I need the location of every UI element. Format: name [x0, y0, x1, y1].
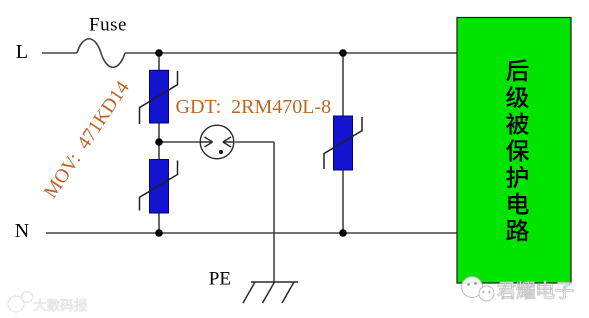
GDT gas indicator dot	[219, 150, 223, 154]
MOV RV1 top-left varistor body	[150, 70, 169, 123]
protected-circuit label char 被	[506, 113, 529, 135]
MOV RV3 right varistor body	[334, 116, 353, 170]
MOV RV1 varistor strike symbol	[140, 71, 178, 124]
ground PE earth symbol	[243, 282, 298, 303]
watermark char 电	[538, 281, 554, 299]
svg-text:L: L	[16, 41, 28, 63]
protected-circuit label char 保	[506, 139, 529, 161]
GDT right electrode arrow	[223, 137, 234, 147]
protected-circuit label char 电	[508, 193, 528, 215]
GDT GD1 tube circle	[200, 125, 234, 159]
wire: left MOV chain vertical	[158, 53, 160, 233]
GDT left electrode arrow	[200, 137, 212, 147]
svg-text:GDT: 2RM470L-8: GDT: 2RM470L-8	[176, 96, 332, 118]
svg-text:PE: PE	[209, 269, 231, 290]
faint corner watermark text	[34, 299, 87, 312]
wire: L rail left segment	[42, 52, 77, 54]
faint corner watermark logo	[8, 292, 33, 313]
wire: PE vertical drop	[273, 142, 275, 282]
MOV RV2 varistor strike symbol	[140, 161, 178, 211]
watermark char 君	[497, 282, 515, 299]
protected-circuit label char 路	[506, 219, 529, 241]
wire: GDT right terminal to PE drop	[235, 141, 274, 143]
wire: L rail to protected block	[125, 52, 457, 54]
MOV RV3 varistor strike symbol	[324, 117, 362, 169]
fuse F1 symbol	[77, 39, 125, 68]
watermark text 君耀电子	[497, 281, 573, 299]
protected-circuit label char 级	[506, 86, 529, 108]
wire: N rail	[46, 232, 457, 234]
junction node N-left	[155, 229, 163, 237]
wire: right MOV branch vertical	[342, 53, 344, 233]
protected-circuit label char 护	[506, 166, 528, 188]
protected circuit block (green box)	[457, 18, 571, 284]
watermark char 耀	[517, 281, 535, 299]
svg-text:N: N	[15, 220, 29, 242]
junction node mid MOV/GDT	[155, 138, 163, 146]
svg-text:Fuse: Fuse	[89, 14, 127, 35]
MOV RV2 bottom-left varistor body	[150, 160, 169, 214]
watermark logo bubbles	[462, 277, 495, 302]
junction node N-right	[339, 229, 347, 237]
junction node L-left	[155, 49, 163, 57]
wire: mid junction to GDT left terminal	[159, 141, 200, 143]
junction node L-right	[339, 49, 347, 57]
protected-circuit label char 后	[506, 59, 528, 81]
watermark char 子	[556, 282, 574, 299]
